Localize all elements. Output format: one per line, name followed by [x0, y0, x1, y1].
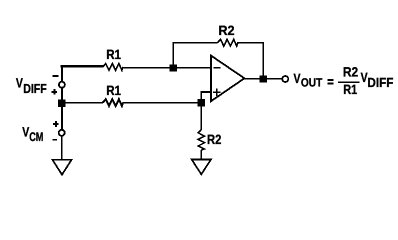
fraction numerator R2 — [343, 65, 358, 80]
resistor R2 (feedback) — [218, 39, 238, 46]
label R1 (top) — [106, 47, 121, 62]
wire VCM down to ground — [61, 136, 63, 160]
svg-text:R2: R2 — [218, 23, 234, 38]
svg-text:R1: R1 — [106, 47, 121, 62]
label VDIFF (source) — [16, 76, 47, 96]
wire top-left horizontal from VDIFF- to R1 — [61, 65, 103, 68]
wire feedback right vertical down to output — [262, 42, 264, 77]
svg-text:V: V — [16, 76, 23, 91]
node junction at inverting input — [170, 65, 177, 72]
svg-text:OUT: OUT — [301, 75, 323, 89]
wire R2 to ground — [200, 150, 202, 160]
op-amp U1 triangle — [211, 56, 244, 102]
terminal VDIFF upper circle — [59, 82, 65, 88]
resistor R2 (to ground, vertical) — [198, 130, 204, 150]
op-amp inverting input minus sign — [214, 67, 221, 69]
plus sign of VCM — [53, 121, 59, 127]
wire feedback top horizontal right segment — [237, 42, 264, 44]
svg-text:DIFF: DIFF — [367, 75, 393, 90]
resistor R1 (top) — [103, 64, 123, 71]
svg-text:V: V — [22, 124, 29, 139]
wire up-right into op-amp + input — [201, 92, 211, 103]
svg-text:R1: R1 — [343, 82, 357, 97]
minus sign of VCM — [53, 139, 57, 141]
equals sign — [327, 79, 333, 85]
svg-text:R2: R2 — [207, 132, 221, 147]
svg-text:DIFF: DIFF — [23, 81, 47, 96]
ground (right) — [192, 159, 211, 174]
wire vertical VDIFF+ down through junction to VCM — [61, 88, 63, 130]
svg-text:R2: R2 — [343, 65, 358, 80]
wire from + node down to R2 — [200, 103, 202, 130]
wire bottom R1 left segment — [62, 102, 103, 104]
svg-text:CM: CM — [29, 130, 43, 144]
node junction noninverting — [198, 99, 205, 106]
op-amp noninverting input plus sign — [213, 89, 221, 97]
wire bottom R1 right segment to + node — [122, 102, 202, 104]
wire output from op-amp to terminal — [244, 78, 282, 80]
plus sign of VDIFF — [52, 89, 58, 95]
terminal VCM circle — [59, 130, 65, 136]
wire feedback top horizontal left segment — [172, 42, 217, 44]
ground (left) — [53, 160, 72, 175]
svg-text:R1: R1 — [106, 83, 121, 98]
label VCM (source) — [22, 124, 43, 144]
label VDIFF (equation) — [361, 70, 394, 90]
fraction denominator R1 — [343, 82, 357, 97]
label R2 (grounding resistor) — [207, 132, 221, 147]
resistor R1 (bottom) — [103, 99, 123, 106]
node junction VDIFF/R1 — [58, 100, 65, 107]
terminal VOUT circle — [282, 76, 288, 82]
node junction output/feedback — [260, 75, 267, 82]
minus sign of VDIFF — [53, 75, 59, 77]
wire thin from R1 to op-amp inverting input — [122, 67, 210, 69]
fraction bar — [338, 81, 360, 83]
wire feedback left vertical — [172, 43, 174, 65]
label R1 (bottom) — [106, 83, 121, 98]
svg-text:V: V — [294, 71, 301, 86]
label R2 (feedback) — [218, 23, 234, 38]
wire vertical from corner down to VDIFF terminal — [61, 65, 63, 82]
label VOUT — [294, 71, 323, 89]
